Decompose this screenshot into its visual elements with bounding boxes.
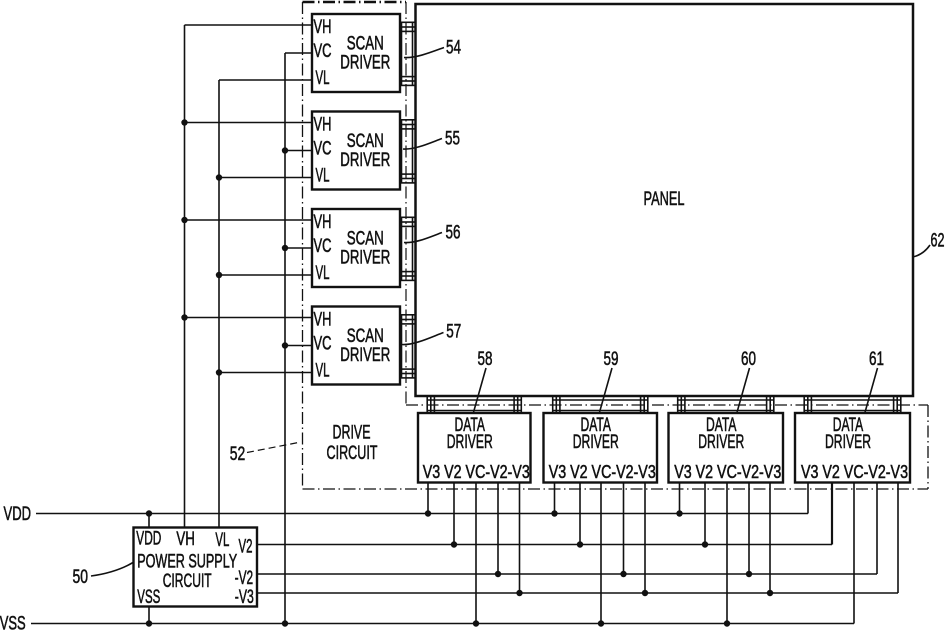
svg-text:58: 58: [478, 349, 493, 370]
VH bus vertical wire: [184, 25, 186, 528]
drive circuit boundary bottom edge: [303, 488, 929, 490]
label 50: [73, 567, 89, 588]
svg-text:DRIVER: DRIVER: [573, 432, 619, 453]
wire VH bus to scan driver 54 VH pin: [185, 24, 313, 26]
svg-text:DRIVER: DRIVER: [698, 432, 744, 453]
data driver 60 title: [698, 415, 744, 453]
ribbon connector scan driver 57 to panel: [400, 315, 416, 378]
VSS label: [0, 614, 26, 632]
svg-text:VDD: VDD: [4, 504, 31, 525]
svg-text:VC: VC: [314, 334, 332, 355]
-V2 rail: [257, 573, 877, 575]
svg-text:CIRCUIT: CIRCUIT: [327, 443, 378, 464]
leader line to 58: [474, 368, 487, 412]
V2 rail: [257, 544, 832, 546]
label 62: [931, 231, 945, 252]
svg-text:54: 54: [446, 38, 461, 59]
label 57: [446, 322, 461, 343]
label 58: [478, 349, 493, 370]
power supply VSS pin label: [137, 587, 160, 608]
wire data driver 58 pin -V3 down to -V3 rail: [519, 483, 521, 594]
svg-text:CIRCUIT: CIRCUIT: [163, 571, 212, 592]
svg-text:V2: V2: [239, 536, 253, 557]
svg-text:55: 55: [445, 128, 460, 149]
scan driver 56 pin labels VH VC VL: [314, 212, 332, 284]
svg-text:DRIVER: DRIVER: [447, 432, 493, 453]
svg-text:56: 56: [446, 222, 461, 243]
wire data driver 59 pin -V3 down to -V3 rail: [644, 483, 646, 594]
junction dots VSS rail: [146, 620, 730, 626]
wire data driver 58 pin V2 down to V2 rail: [453, 483, 455, 545]
scan driver 54 box: [312, 14, 400, 92]
-V3 rail: [257, 592, 898, 594]
junction dots VL bus: [216, 174, 222, 375]
data driver 60 box: [669, 413, 784, 483]
scan driver 55 title: [340, 131, 390, 171]
wire VC bus to scan driver 56 VC pin: [285, 247, 312, 249]
wire VC bus to scan driver 55 VC pin: [285, 150, 312, 152]
wire power supply VSS pin to VSS rail: [148, 607, 150, 624]
wire data driver 59 pin V3 down to V3 rail: [554, 483, 556, 514]
svg-text:52: 52: [230, 444, 246, 465]
svg-text:VC: VC: [314, 139, 332, 160]
ribbon connector data driver 58 to panel: [427, 396, 521, 413]
wire data driver 60 pin V3 down to V3 rail: [679, 483, 681, 514]
wire VC bus to scan driver 57 VC pin: [285, 345, 312, 347]
leader line to 56: [404, 233, 442, 243]
wire data driver 61 pin V2 down to V2 rail: [831, 483, 833, 545]
data driver 58 title: [447, 415, 493, 453]
leader line to 57: [402, 333, 444, 345]
svg-text:VL: VL: [316, 361, 330, 382]
scan driver 56 title: [340, 229, 390, 269]
svg-text:V3 V2 VC-V2-V3: V3 V2 VC-V2-V3: [423, 462, 530, 482]
svg-text:VSS: VSS: [0, 614, 26, 632]
svg-text:POWER SUPPLY: POWER SUPPLY: [137, 552, 237, 573]
data driver 59 title: [573, 415, 619, 453]
panel 62 box: [416, 4, 914, 396]
leader line to 62: [913, 245, 931, 257]
svg-text:VL: VL: [316, 166, 330, 187]
svg-text:50: 50: [73, 567, 89, 588]
wire data driver 58 pin VC down to VC rail: [475, 483, 477, 624]
ribbon connector scan driver 54 to panel: [400, 22, 416, 85]
svg-text:VH: VH: [314, 212, 332, 233]
wire VDD rail to power supply VDD pin: [148, 514, 150, 528]
VSS rail: [31, 623, 854, 625]
wire data driver 59 pin -V2 down to -V2 rail: [623, 483, 625, 575]
svg-text:VL: VL: [215, 530, 229, 551]
leader line to 52 (dashed): [247, 442, 301, 453]
data driver 59 pin labels: [549, 462, 656, 482]
svg-text:V3 V2 VC-V2-V3: V3 V2 VC-V2-V3: [674, 462, 781, 482]
leader line to 54: [404, 48, 444, 58]
VDD / V3 rail: [36, 513, 808, 515]
svg-text:60: 60: [741, 349, 756, 370]
drive circuit boundary inner vertical (between scan drivers and panel): [405, 2, 407, 405]
label 55: [445, 128, 460, 149]
drive circuit boundary (dash-dot outline 52) top edge: [303, 1, 407, 4]
label 59: [604, 349, 619, 370]
wire data driver 60 pin -V2 down to -V2 rail: [748, 483, 750, 575]
junction dots VC bus: [282, 147, 288, 348]
VC bus vertical wire: [284, 53, 286, 624]
wire VL bus to scan driver 54 VL pin: [219, 79, 312, 81]
leader line to 50: [91, 563, 133, 577]
wire data driver 59 pin VC down to VC rail: [600, 483, 602, 624]
svg-text:VH: VH: [314, 310, 332, 331]
wire data driver 61 pin VC down to VC rail: [853, 483, 855, 624]
svg-text:VL: VL: [316, 263, 330, 284]
data driver 61 pin labels: [801, 462, 908, 482]
data driver 59 box: [544, 413, 658, 483]
drive circuit boundary inner horizontal (between panel and data drivers): [406, 404, 928, 406]
wire VL bus to scan driver 56 VL pin: [219, 274, 312, 276]
svg-text:VC: VC: [314, 236, 332, 257]
leader line to 60: [737, 368, 750, 412]
svg-text:59: 59: [604, 349, 619, 370]
svg-text:VL: VL: [316, 68, 330, 89]
drive circuit boundary left edge: [302, 2, 304, 489]
power supply title: [137, 552, 237, 593]
data driver 58 pin labels: [423, 462, 530, 482]
data driver 61 box: [795, 413, 910, 483]
svg-text:-V2: -V2: [235, 568, 254, 589]
wire data driver 58 pin -V2 down to -V2 rail: [497, 483, 499, 575]
wire data driver 59 pin V2 down to V2 rail: [579, 483, 581, 545]
svg-text:SCAN: SCAN: [347, 131, 384, 152]
scan driver 55 pin labels VH VC VL: [314, 115, 332, 187]
leader line to 59: [600, 368, 613, 412]
wire data driver 61 pin -V2 down to -V2 rail: [876, 483, 878, 575]
wire data driver 61 pin -V3 down to -V3 rail: [897, 483, 899, 594]
svg-text:VH: VH: [176, 529, 195, 550]
svg-text:-V3: -V3: [235, 587, 254, 608]
ribbon connector scan driver 55 to panel: [400, 120, 416, 183]
junction dots VH bus: [181, 119, 187, 320]
svg-text:SCAN: SCAN: [347, 229, 384, 250]
junction dots -V3 rail: [516, 590, 773, 596]
junction dots V2 rail: [451, 541, 708, 547]
VL bus vertical wire: [218, 80, 220, 528]
wire VH bus to scan driver 55 VH pin: [185, 122, 313, 124]
scan driver 57 box: [312, 307, 400, 385]
wire data driver 60 pin V2 down to V2 rail: [704, 483, 706, 545]
label 56: [446, 222, 461, 243]
svg-text:V3 V2 VC-V2-V3: V3 V2 VC-V2-V3: [801, 462, 908, 482]
leader line to 61: [865, 368, 878, 412]
scan driver 54 title: [340, 34, 390, 74]
drive circuit boundary right edge: [927, 405, 929, 489]
scan driver 57 pin labels VH VC VL: [314, 310, 332, 382]
svg-text:VH: VH: [314, 115, 332, 136]
label 60: [741, 349, 756, 370]
VDD label: [4, 504, 31, 525]
scan driver 54 pin labels VH VC VL: [314, 17, 332, 89]
power supply output labels: [235, 536, 254, 608]
svg-text:DRIVER: DRIVER: [340, 53, 390, 74]
svg-text:V3 V2 VC-V2-V3: V3 V2 VC-V2-V3: [549, 462, 656, 482]
wire VC bus to scan driver 54 VC pin: [285, 52, 312, 54]
wire VH bus to scan driver 56 VH pin: [185, 219, 313, 221]
svg-text:VDD: VDD: [136, 529, 161, 550]
drive circuit title: [327, 423, 378, 464]
junction dots -V2 rail: [495, 571, 752, 577]
svg-text:DRIVER: DRIVER: [825, 432, 871, 453]
svg-text:DRIVER: DRIVER: [340, 345, 390, 366]
wire VH bus to scan driver 57 VH pin: [185, 317, 313, 319]
svg-text:57: 57: [446, 322, 461, 343]
label 54: [446, 38, 461, 59]
svg-text:DRIVER: DRIVER: [340, 248, 390, 269]
svg-text:DRIVER: DRIVER: [340, 150, 390, 171]
wire data driver 60 pin -V3 down to -V3 rail: [769, 483, 771, 594]
scan driver 55 box: [312, 112, 400, 190]
svg-text:SCAN: SCAN: [347, 34, 384, 55]
svg-text:SCAN: SCAN: [347, 326, 384, 347]
svg-text:VH: VH: [314, 17, 332, 38]
data driver 58 box: [418, 413, 531, 483]
wire data driver 58 pin V3 down to V3 rail: [427, 483, 429, 514]
scan driver 56 box: [312, 209, 400, 287]
ribbon connector data driver 60 to panel: [678, 396, 774, 413]
power supply top pin labels: [136, 529, 229, 551]
wire data driver 61 pin V3 down to V3 rail: [807, 483, 809, 514]
scan driver 57 title: [340, 326, 390, 366]
svg-text:PANEL: PANEL: [644, 189, 685, 210]
label 61: [869, 349, 884, 370]
wire data driver 60 pin VC down to VC rail: [726, 483, 728, 624]
data driver 60 pin labels: [674, 462, 781, 482]
leader line to 55: [403, 139, 442, 150]
power supply circuit 50 box: [134, 528, 258, 607]
svg-text:61: 61: [869, 349, 884, 370]
svg-text:VSS: VSS: [137, 587, 160, 608]
data driver 61 title: [825, 415, 871, 453]
ribbon connector scan driver 56 to panel: [400, 217, 416, 280]
panel label: [644, 189, 685, 210]
svg-text:VC: VC: [314, 41, 332, 62]
ribbon connector data driver 61 to panel: [804, 396, 901, 413]
svg-text:62: 62: [931, 231, 945, 252]
ribbon connector data driver 59 to panel: [553, 396, 648, 413]
label 52: [230, 444, 246, 465]
svg-text:DRIVE: DRIVE: [333, 423, 371, 444]
wire VL bus to scan driver 55 VL pin: [219, 177, 312, 179]
junction dots VDD rail: [146, 510, 683, 516]
wire VL bus to scan driver 57 VL pin: [219, 372, 312, 374]
